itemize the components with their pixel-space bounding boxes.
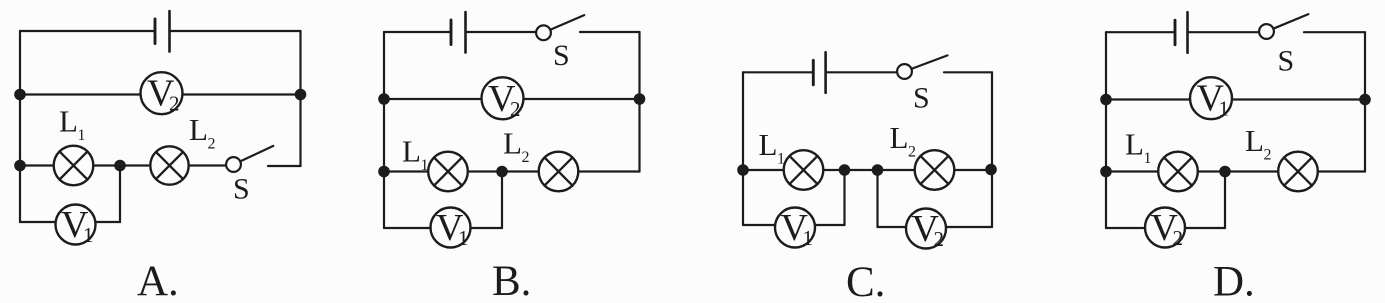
svg-text:1: 1 [421,157,429,174]
svg-text:2: 2 [208,136,216,153]
svg-text:2: 2 [169,92,180,116]
svg-text:L: L [59,104,78,139]
svg-text:2: 2 [1264,147,1272,164]
svg-text:S: S [1278,45,1295,78]
svg-text:1: 1 [1219,97,1230,121]
svg-text:1: 1 [803,226,814,250]
svg-text:S: S [233,173,250,206]
svg-text:B.: B. [492,258,531,303]
svg-text:2: 2 [908,144,916,161]
svg-text:1: 1 [78,127,86,144]
svg-text:L: L [759,127,778,162]
svg-text:L: L [890,120,909,155]
svg-text:A.: A. [137,258,179,303]
svg-text:L: L [503,126,522,161]
svg-text:2: 2 [522,149,530,166]
svg-text:2: 2 [510,97,521,121]
svg-text:L: L [402,134,421,169]
svg-text:S: S [913,82,930,115]
svg-text:L: L [1125,127,1144,162]
svg-text:2: 2 [934,227,945,251]
svg-text:1: 1 [1144,150,1152,167]
svg-text:1: 1 [458,226,469,250]
svg-text:2: 2 [1173,226,1184,250]
svg-text:L: L [1245,123,1264,158]
svg-text:C.: C. [846,259,885,303]
svg-text:1: 1 [777,151,785,168]
svg-text:1: 1 [83,223,94,247]
svg-text:L: L [189,112,208,147]
svg-text:D.: D. [1213,259,1255,303]
svg-text:S: S [553,39,570,72]
